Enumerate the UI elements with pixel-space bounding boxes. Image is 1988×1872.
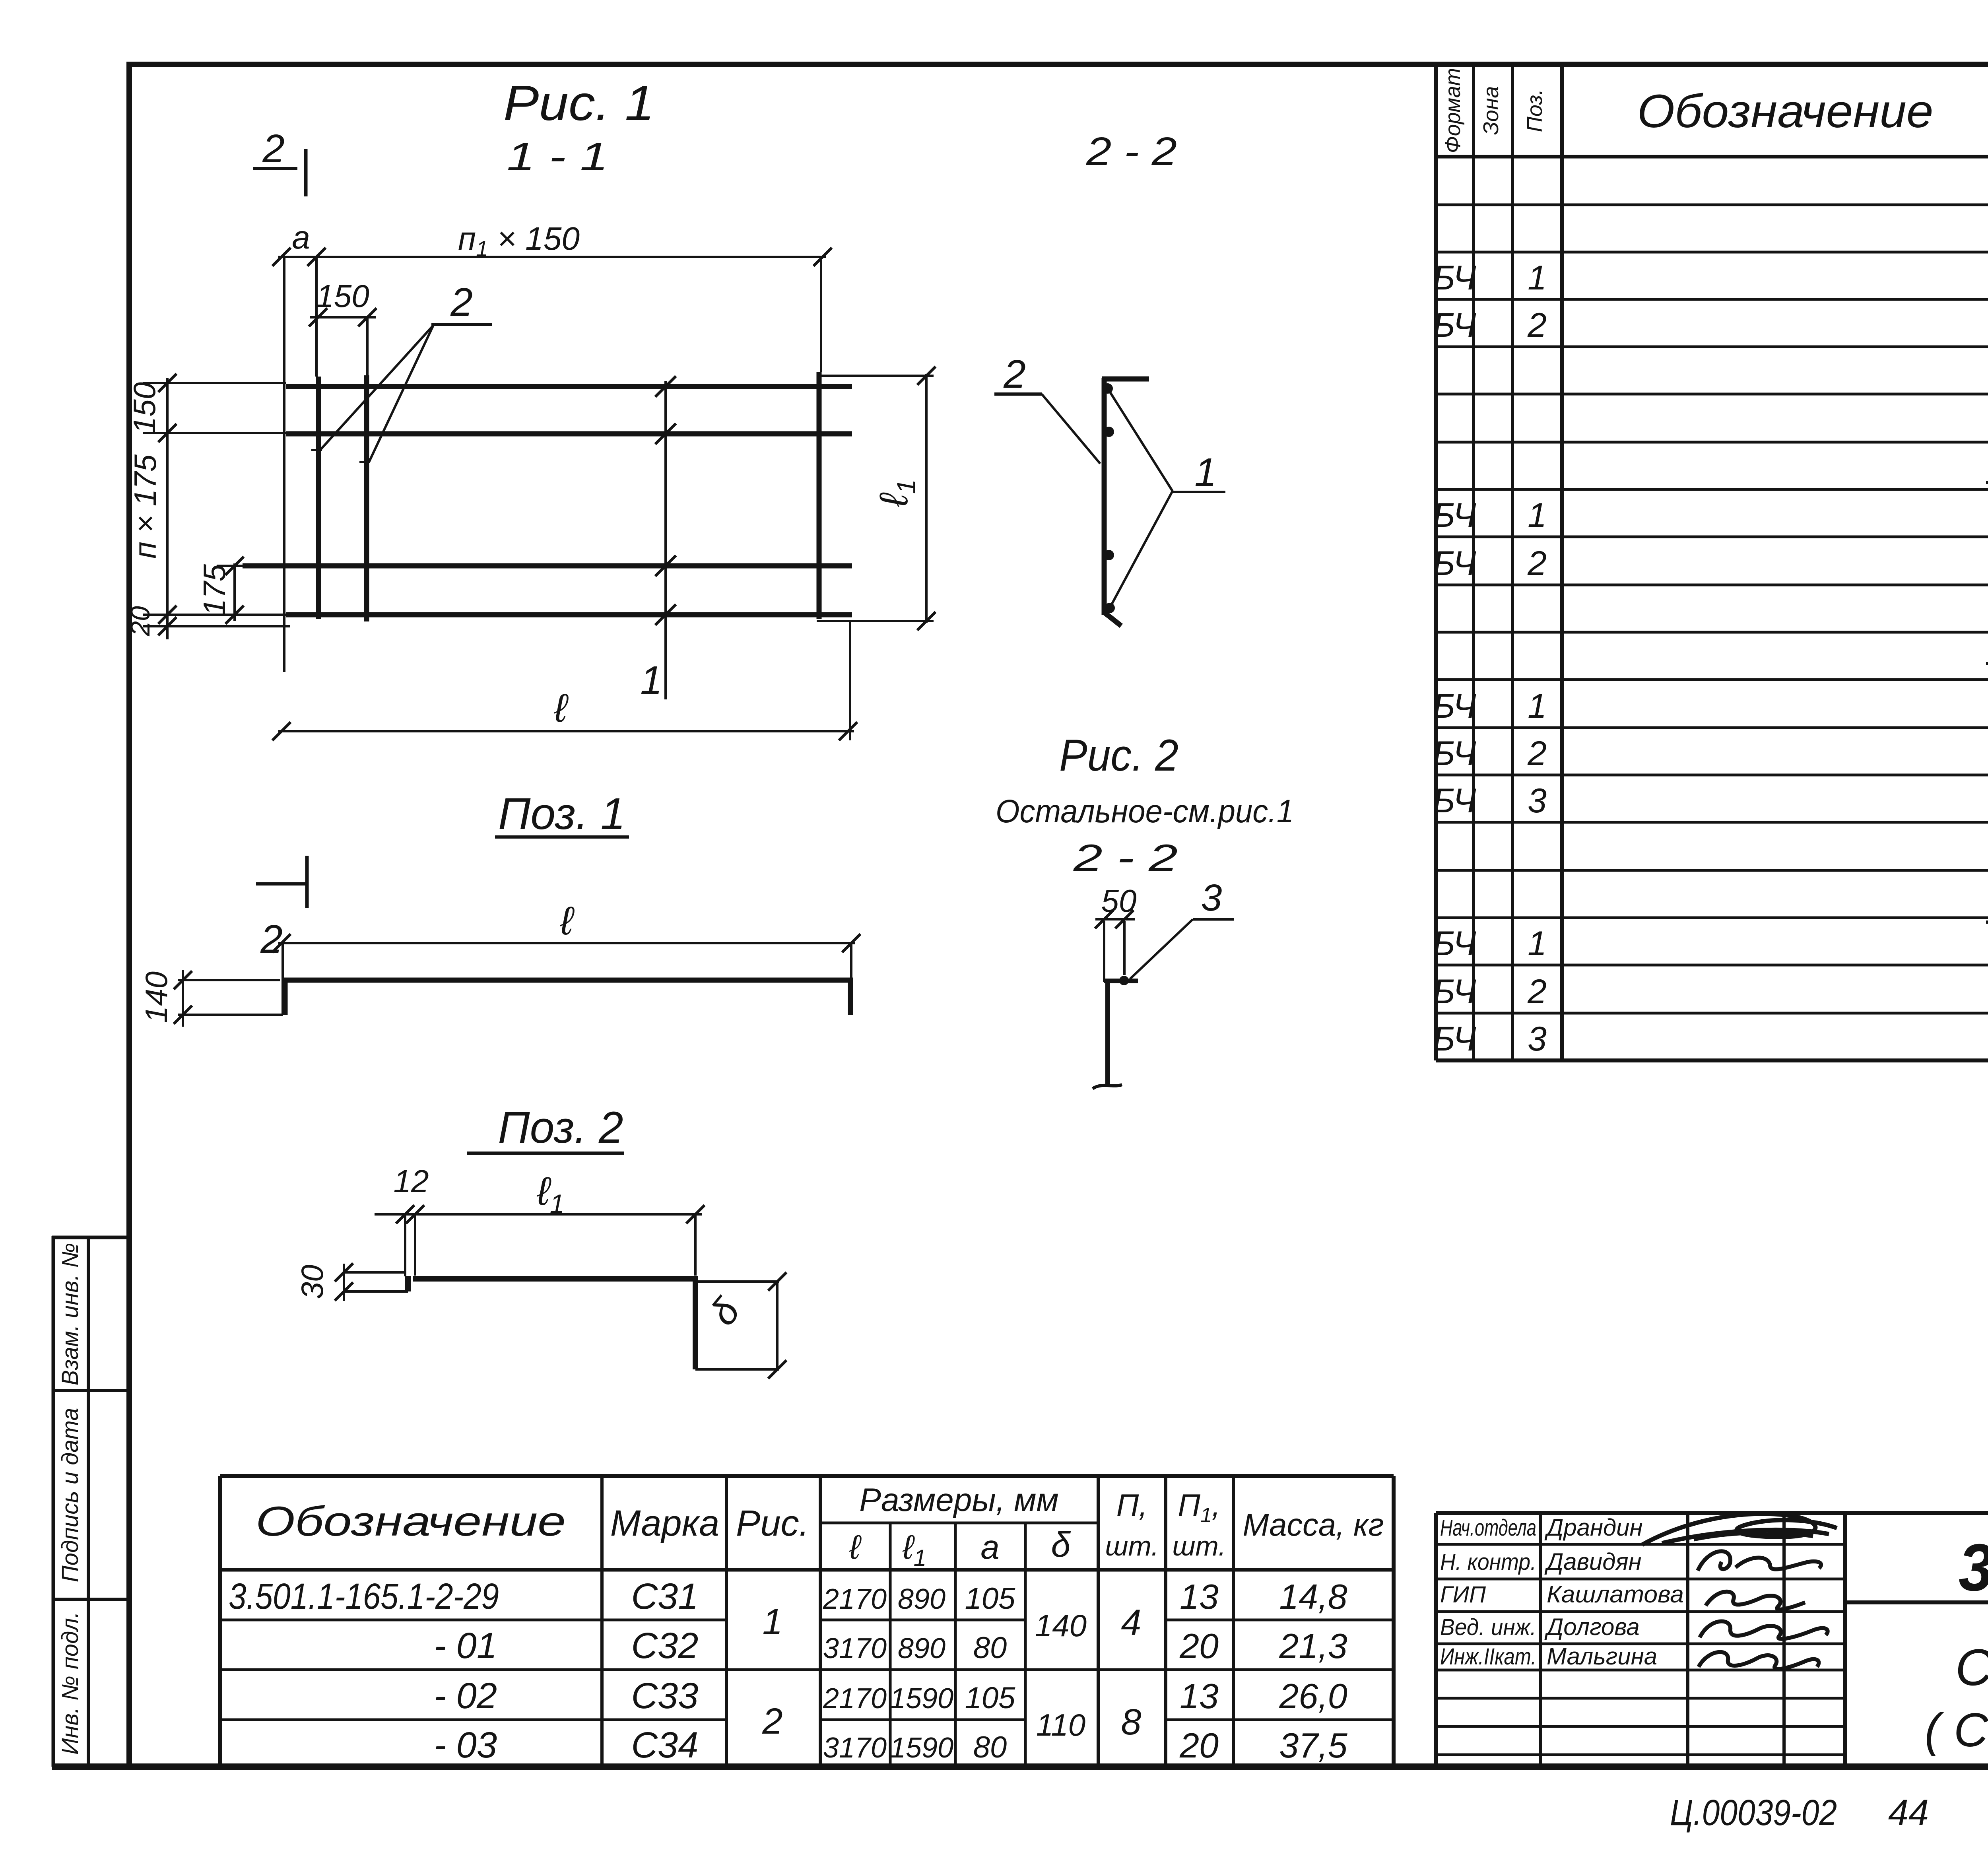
dim l1 ext line bottom — [817, 620, 934, 622]
svg-text:2: 2 — [1527, 973, 1547, 1011]
svg-text:Размеры, мм: Размеры, мм — [859, 1482, 1058, 1518]
svg-text:2 - 2: 2 - 2 — [1086, 129, 1177, 174]
Poz.2 left leg horizontal — [344, 1290, 408, 1293]
svg-text:Инв. № подл.: Инв. № подл. — [57, 1612, 83, 1755]
svg-text:105: 105 — [965, 1681, 1016, 1715]
rebar pos1 bar4 bottom — [286, 612, 852, 618]
Poz.2 title underline — [467, 1152, 624, 1155]
svg-text:С31: С31 — [631, 1576, 699, 1617]
section 2-2 profile bottom hook — [1104, 612, 1121, 626]
title block signature column line 2 — [1686, 1513, 1689, 1767]
svg-text:26,0: 26,0 — [1279, 1676, 1347, 1716]
bottom table subcolumn line l-l1 — [889, 1523, 892, 1767]
spec table row line 15 — [1436, 869, 1988, 872]
svg-text:БЧ: БЧ — [1433, 1020, 1476, 1058]
svg-text:80: 80 — [973, 1730, 1007, 1764]
svg-text:Давидян: Давидян — [1544, 1548, 1642, 1575]
section line 1 tick at bar3 — [655, 555, 676, 576]
section 2-2 bar3 cross-section dot — [1104, 550, 1114, 560]
Poz.1 dim 140 ext bottom — [178, 1014, 283, 1016]
section 2-2 leader from top dot to label 1 — [1108, 388, 1173, 491]
svg-text:3: 3 — [1201, 877, 1222, 919]
left strip outer vertical line — [52, 1236, 55, 1767]
svg-text:( С31... С34): ( С31... С34) — [1925, 1703, 1988, 1757]
svg-text:110: 110 — [1036, 1707, 1085, 1742]
Poz.2 dim delta ext bottom — [695, 1368, 779, 1371]
Poz.1 bar left hook down — [283, 978, 288, 1015]
Poz.1 bar body — [283, 978, 853, 983]
spec table row line 7 — [1436, 488, 1988, 491]
svg-text:1: 1 — [1528, 259, 1547, 297]
dim 175 line — [233, 563, 236, 621]
svg-text:2: 2 — [1527, 306, 1547, 344]
Poz.1 dim l ext left — [282, 943, 284, 1015]
Ris.2 dim 50 tick right — [1115, 910, 1134, 928]
Poz.1 dim l ext right — [850, 943, 852, 979]
section 2-2 bar2 cross-section dot — [1104, 427, 1114, 437]
left strip top line — [52, 1236, 129, 1239]
dim 175 tick top — [225, 557, 244, 575]
svg-text:Обозначение: Обозначение — [1637, 85, 1934, 138]
dim tick a left — [272, 248, 291, 266]
left dim tick bar2 — [158, 424, 177, 442]
Poz.2 dim 30 ext top — [343, 1271, 405, 1274]
svg-text:Обозначение: Обозначение — [256, 1498, 566, 1545]
left ext line bottom edge — [143, 625, 290, 627]
svg-text:δ: δ — [1051, 1525, 1071, 1564]
rebar pos2 transverse bar A — [316, 377, 321, 619]
svg-text:30: 30 — [295, 1265, 330, 1299]
svg-text:140: 140 — [1035, 1608, 1087, 1643]
svg-text:Поз. 2: Поз. 2 — [498, 1103, 623, 1152]
spec table row line 6 — [1436, 441, 1988, 444]
spec table column line Poz — [1511, 64, 1514, 1060]
dim tick n1x150 right — [813, 248, 832, 266]
title block signature column line 3 — [1782, 1513, 1786, 1767]
Poz.2 dim delta line — [776, 1282, 779, 1369]
title block signature column line 1 — [1539, 1513, 1542, 1767]
section line 1 tick at bar1 — [655, 376, 676, 397]
bottom table row line A-B — [220, 1619, 726, 1621]
svg-text:1590: 1590 — [890, 1683, 953, 1715]
title block main divider vertical — [1843, 1513, 1847, 1767]
spec table row line 14 — [1436, 821, 1988, 824]
svg-text:12: 12 — [394, 1163, 429, 1199]
dim l ext line right — [849, 620, 851, 740]
Ris.2 ext line right — [1123, 921, 1126, 975]
title block signature row line 4 — [1436, 1643, 1845, 1645]
svg-text:13: 13 — [1180, 1577, 1219, 1616]
rebar pos1 bar3 — [243, 563, 852, 569]
svg-text:44: 44 — [1888, 1792, 1929, 1833]
bottom table subcolumn line l1-a — [954, 1523, 957, 1767]
callout 2 leader hook at bar A — [311, 449, 322, 451]
dim l1 ext line top — [817, 375, 934, 377]
svg-text:1: 1 — [1194, 450, 1217, 495]
section line 1 tick at bar4 — [655, 604, 676, 625]
spec table row line 18 — [1436, 1012, 1988, 1015]
svg-text:ℓ: ℓ — [560, 899, 575, 943]
Poz.1 title underline — [495, 835, 629, 839]
bottom table column line Ris — [725, 1476, 728, 1767]
extension line at bar C top — [820, 257, 822, 372]
Ris.2 dim 50 line — [1095, 918, 1135, 920]
svg-text:1590: 1590 — [890, 1732, 953, 1764]
svg-text:Масса, кг: Масса, кг — [1243, 1507, 1384, 1542]
mesh left edge / extension line — [283, 257, 285, 672]
svg-text:С33: С33 — [631, 1676, 699, 1716]
svg-text:3: 3 — [1528, 1020, 1547, 1058]
bottom table column line Razmery-l — [819, 1476, 822, 1767]
svg-text:3.501.1-165.1-2-29: 3.501.1-165.1-2-29 — [1959, 1530, 1988, 1605]
svg-text:2: 2 — [262, 126, 285, 171]
svg-text:1: 1 — [1528, 496, 1547, 534]
svg-text:1: 1 — [1528, 687, 1547, 725]
sheet frame bottom border — [52, 1763, 1988, 1770]
svg-text:150: 150 — [316, 278, 369, 314]
svg-text:1: 1 — [762, 1602, 782, 1642]
left dim tick bar4 — [158, 606, 177, 624]
Ris.2 break mark — [1093, 1085, 1122, 1089]
spec table row line 3 — [1436, 298, 1988, 301]
svg-text:Сетка С: Сетка С — [1955, 1638, 1988, 1696]
Poz.2 dim delta tick top — [768, 1272, 786, 1291]
title block top line — [1436, 1511, 1988, 1515]
Ris.2 callout 3 underline — [1193, 918, 1234, 921]
Poz.1 bar right hook down — [848, 978, 853, 1015]
title block signature scribble 3 — [1706, 1592, 1805, 1610]
svg-text:п × 175: п × 175 — [128, 454, 163, 559]
svg-text:37,5: 37,5 — [1279, 1726, 1347, 1765]
dim 175 ext line — [217, 565, 244, 567]
spec table bottom line — [1436, 1058, 1988, 1062]
svg-text:2: 2 — [762, 1701, 782, 1742]
left dim tick bar1 — [158, 374, 177, 392]
title block signature row line 2 — [1436, 1578, 1845, 1581]
section 2-2 bar1 cross-section dot — [1103, 383, 1113, 394]
svg-text:Остальное-см.рис.1: Остальное-см.рис.1 — [996, 793, 1294, 829]
svg-text:2: 2 — [1527, 734, 1547, 773]
dim line 150 small — [310, 316, 376, 318]
dimension line a + n1x150 — [278, 256, 826, 258]
section mark 2 top-left: cut tick — [304, 149, 308, 196]
section 2-2 transverse bar profile vertical — [1102, 378, 1107, 615]
bottom table top line — [220, 1474, 1394, 1478]
svg-text:БЧ: БЧ — [1433, 973, 1476, 1011]
svg-text:ℓ: ℓ — [554, 686, 569, 730]
svg-text:2 - 2: 2 - 2 — [1073, 837, 1178, 879]
svg-text:БЧ: БЧ — [1433, 259, 1476, 297]
Poz.2 dim tick l1 right — [686, 1205, 705, 1223]
svg-text:Взам. инв. №: Взам. инв. № — [57, 1243, 83, 1386]
Ris.2 pos3 bar dot — [1119, 976, 1129, 985]
svg-text:105: 105 — [965, 1582, 1016, 1616]
left strip divider line 1 — [52, 1389, 129, 1392]
Ris.2 dim 50 tick left — [1095, 910, 1113, 928]
svg-text:а: а — [980, 1528, 999, 1566]
Ris.2 profile vertical bar — [1105, 981, 1110, 1086]
svg-text:- 03: - 03 — [434, 1725, 497, 1765]
svg-text:175: 175 — [197, 564, 232, 616]
spec table row line 13 — [1436, 774, 1988, 777]
left strip inner vertical line — [87, 1236, 90, 1767]
bottom table subcolumn line a-delta — [1024, 1523, 1027, 1767]
bottom table header bottom line — [220, 1568, 1394, 1572]
svg-text:Кашлатова: Кашлатова — [1547, 1581, 1684, 1608]
svg-text:Поз.: Поз. — [1523, 89, 1547, 132]
spec table column line Oboznachenie — [1560, 64, 1564, 1060]
section line 1 tick at bar2 — [655, 423, 676, 444]
svg-text:890: 890 — [898, 1633, 945, 1664]
svg-text:шт.: шт. — [1172, 1530, 1226, 1561]
svg-text:ℓ: ℓ — [849, 1528, 862, 1566]
Poz.1 dim l tick right — [842, 934, 860, 952]
svg-text:Нач.отдела: Нач.отдела — [1440, 1515, 1536, 1541]
svg-text:3.501.1-165.1-2-29: 3.501.1-165.1-2-29 — [229, 1576, 499, 1617]
Poz.2 ext line 12 left — [404, 1214, 406, 1276]
Poz.2 dim l1 line — [375, 1213, 702, 1216]
Poz.2 bar body — [413, 1276, 697, 1282]
svg-text:- 01: - 01 — [434, 1625, 497, 1666]
svg-text:8: 8 — [1121, 1702, 1141, 1742]
section 2-2 leader horizontal to label 1 — [1173, 491, 1225, 493]
svg-text:БЧ: БЧ — [1433, 306, 1476, 344]
svg-text:2: 2 — [1527, 544, 1547, 583]
svg-text:2: 2 — [1003, 352, 1026, 396]
callout 2 right underline — [994, 392, 1042, 396]
spec table row line 5 — [1436, 393, 1988, 396]
left ext line bar1 — [143, 382, 286, 384]
bottom table row line B-C — [220, 1668, 1394, 1671]
svg-text:БЧ: БЧ — [1433, 782, 1476, 820]
svg-text:4: 4 — [1121, 1602, 1141, 1643]
extension line at bar B top — [366, 317, 369, 375]
svg-text:Драндин: Драндин — [1544, 1514, 1643, 1541]
svg-text:Формат: Формат — [1441, 68, 1465, 153]
bottom table column line delta-P — [1097, 1476, 1100, 1767]
svg-text:3170: 3170 — [823, 1732, 887, 1764]
dim l1 tick top — [917, 367, 936, 385]
title block signature scribble 2 — [1698, 1551, 1821, 1571]
left ext line bar4 — [143, 614, 286, 616]
svg-text:Ц.00039-02: Ц.00039-02 — [1670, 1792, 1837, 1833]
section 2-2 bar4 cross-section dot — [1105, 603, 1115, 613]
svg-text:2170: 2170 — [823, 1583, 887, 1615]
spec table row line 4 — [1436, 346, 1988, 348]
svg-text:21,3: 21,3 — [1279, 1626, 1347, 1666]
svg-text:14,8: 14,8 — [1279, 1577, 1347, 1616]
svg-text:1: 1 — [640, 658, 662, 703]
rebar pos1 bar2 — [286, 431, 852, 437]
Poz.2 ext line l1 right — [694, 1214, 697, 1276]
rebar pos2 transverse bar C right — [817, 372, 822, 619]
bottom table right edge — [1392, 1476, 1396, 1767]
Poz.2 dim 30 line — [343, 1264, 345, 1301]
section line 1 vertical — [664, 381, 667, 699]
svg-text:2170: 2170 — [823, 1683, 887, 1715]
left strip divider line 2 — [52, 1598, 129, 1601]
spec table row line 9 — [1436, 584, 1988, 586]
svg-text:С34: С34 — [631, 1725, 699, 1765]
rebar pos2 transverse bar B — [364, 375, 369, 621]
svg-text:890: 890 — [898, 1583, 945, 1615]
title block signature row line 6 — [1436, 1697, 1845, 1700]
Ris.2 ext line left — [1103, 921, 1105, 982]
section 2-2 profile top hook — [1102, 377, 1149, 382]
title block signature row line 7 — [1436, 1725, 1845, 1728]
Poz.2 dim delta tick bottom — [768, 1360, 786, 1379]
callout 2 underline — [431, 323, 492, 326]
dim l tick right — [839, 722, 857, 740]
svg-text:Подпись и дата: Подпись и дата — [57, 1408, 83, 1583]
svg-text:3170: 3170 — [823, 1633, 887, 1664]
svg-text:а: а — [292, 219, 310, 256]
callout 2 leader to bar A — [320, 325, 433, 450]
dim l1 tick bottom — [917, 612, 936, 630]
callout 2 right leader — [1042, 394, 1100, 464]
svg-text:3: 3 — [1528, 782, 1547, 820]
title block left edge vertical — [1434, 1513, 1438, 1767]
Poz.1 dim l tick left — [272, 934, 291, 952]
bottom table column line P1-Massa — [1232, 1476, 1235, 1767]
bottom table row line C-D — [220, 1719, 726, 1721]
svg-text:ГИП: ГИП — [1440, 1582, 1486, 1608]
Poz.2 dim tick 12 left — [396, 1205, 414, 1223]
svg-text:Инж.IIкат.: Инж.IIкат. — [1440, 1644, 1536, 1670]
callout 2 leader to bar B — [369, 325, 433, 462]
Poz.2 ext line 12 right — [414, 1214, 416, 1276]
svg-text:Рис.: Рис. — [736, 1503, 809, 1544]
Poz.1 dim 140 tick top — [174, 971, 192, 989]
dim tick 150 left — [309, 308, 327, 326]
sheet frame top border — [126, 62, 1988, 67]
dim tick 150 right — [358, 308, 377, 326]
svg-text:БЧ: БЧ — [1433, 734, 1476, 773]
extension line at bar A top — [315, 257, 318, 377]
section mark 2 at Poz.1: cut tick — [305, 856, 309, 908]
svg-text:БЧ: БЧ — [1433, 496, 1476, 534]
svg-text:- 02: - 02 — [434, 1676, 497, 1716]
svg-text:2: 2 — [260, 917, 283, 961]
svg-text:С32: С32 — [631, 1625, 699, 1666]
svg-text:1 - 1: 1 - 1 — [507, 134, 608, 179]
svg-text:Рис. 1: Рис. 1 — [503, 76, 654, 131]
spec table row line 2 — [1436, 251, 1988, 254]
bottom table left edge — [218, 1476, 222, 1767]
svg-text:Зона: Зона — [1479, 86, 1503, 135]
left ext line bar2 — [143, 432, 286, 434]
Poz.2 bar right end drop — [693, 1276, 698, 1369]
title block signature row line 3 — [1436, 1610, 1845, 1613]
spec table row line 17 — [1436, 964, 1988, 967]
Poz.2 dim 30 tick bottom — [335, 1282, 353, 1301]
title block signature row line 5 — [1436, 1669, 1845, 1672]
svg-text:Рис. 2: Рис. 2 — [1059, 730, 1178, 780]
svg-text:20: 20 — [1179, 1626, 1219, 1666]
Poz.1 dim 140 line — [182, 970, 184, 1027]
title block signature scribble 5 — [1699, 1652, 1819, 1669]
callout 2 leader hook at bar B — [359, 461, 370, 463]
svg-text:БЧ: БЧ — [1433, 687, 1476, 725]
svg-text:140: 140 — [139, 971, 174, 1023]
dim l line bottom — [278, 730, 854, 732]
Poz.2 dim 30 tick top — [335, 1263, 353, 1282]
svg-text:Мальгина: Мальгина — [1547, 1643, 1657, 1670]
svg-text:П,: П, — [1116, 1488, 1147, 1522]
title block number field bottom line — [1845, 1600, 1988, 1604]
svg-text:20: 20 — [125, 606, 155, 637]
dim l1 line — [925, 374, 928, 623]
spec table header bottom line — [1436, 155, 1988, 159]
svg-text:Вед. инж.: Вед. инж. — [1440, 1614, 1536, 1640]
sheet frame left border — [126, 62, 132, 1769]
bottom table column line P-P1 — [1164, 1476, 1167, 1767]
dim l tick left — [272, 722, 291, 740]
title block signature scribble 4 — [1700, 1621, 1828, 1639]
bottom table column line Marka — [600, 1476, 604, 1767]
Poz.1 dim 140 ext top — [178, 979, 280, 981]
section mark 2 at Poz.1: horizontal line — [256, 882, 307, 886]
svg-text:20: 20 — [1179, 1726, 1219, 1765]
spec table column line Zona — [1472, 64, 1475, 1060]
left dim chain line — [166, 378, 169, 639]
Ris.2 profile top leg horizontal — [1104, 979, 1138, 983]
spec table row line 10 — [1436, 631, 1988, 634]
Poz.2 bar left end drop — [405, 1276, 411, 1291]
spec table row line 1 — [1436, 204, 1988, 206]
dim 175 tick bottom — [225, 606, 244, 624]
section mark 2 top-left: underline — [253, 167, 297, 170]
Ris.2 callout 3 leader — [1130, 919, 1193, 979]
svg-text:Н. контр.: Н. контр. — [1440, 1549, 1536, 1575]
svg-text:П1,: П1, — [1178, 1488, 1220, 1527]
spec table column line Format left — [1434, 64, 1438, 1060]
dim tick a right — [307, 248, 326, 266]
svg-text:80: 80 — [973, 1631, 1007, 1665]
Poz.2 dim delta ext top — [698, 1280, 779, 1283]
svg-text:1: 1 — [1528, 924, 1547, 963]
svg-text:2: 2 — [450, 280, 473, 324]
section 2-2 leader from bottom dot to label 1 — [1110, 491, 1173, 608]
rebar pos1 bar1 top — [286, 384, 852, 389]
svg-text:БЧ: БЧ — [1433, 924, 1476, 963]
svg-text:Марка: Марка — [610, 1503, 720, 1544]
bottom table Razmery subheader line — [820, 1522, 1098, 1524]
title block signature scribble 1 — [1642, 1514, 1837, 1545]
svg-text:150: 150 — [127, 382, 162, 434]
Poz.1 dim 140 tick bottom — [174, 1006, 192, 1024]
svg-text:Долгова: Долгова — [1544, 1614, 1640, 1640]
Poz.2 dim tick 12 right — [406, 1205, 424, 1223]
svg-text:шт.: шт. — [1105, 1530, 1159, 1561]
left dim tick bottom edge — [158, 617, 177, 635]
spec table row line 12 — [1436, 726, 1988, 729]
title block signature row line 1 — [1436, 1543, 1845, 1546]
Poz.1 dim l line — [278, 942, 855, 944]
svg-text:Поз. 1: Поз. 1 — [498, 789, 625, 839]
spec table row line 11 — [1436, 678, 1988, 681]
svg-text:БЧ: БЧ — [1433, 544, 1476, 583]
spec table row line 8 — [1436, 536, 1988, 538]
title block signature row line 8 — [1436, 1754, 1845, 1756]
svg-text:13: 13 — [1180, 1676, 1219, 1716]
spec table row line 16 — [1436, 917, 1988, 919]
